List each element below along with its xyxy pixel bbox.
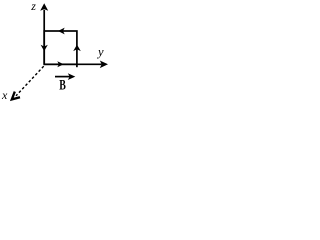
svg-text:B: B bbox=[59, 77, 66, 94]
svg-text:z: z bbox=[30, 0, 36, 13]
svg-text:x: x bbox=[1, 88, 8, 102]
svg-text:y: y bbox=[96, 45, 104, 59]
